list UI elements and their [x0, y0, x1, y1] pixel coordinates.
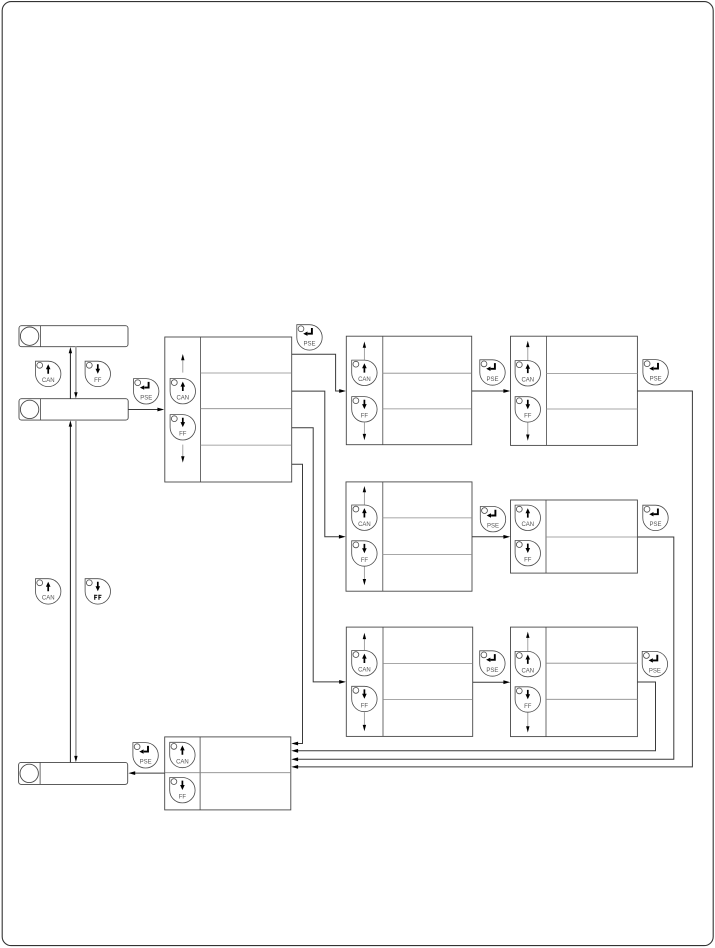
block B4 (row2 center)	[346, 482, 472, 591]
process capsule P1 (top-left)	[19, 326, 128, 347]
wire W4 line	[292, 428, 341, 682]
wire W1 line	[128, 409, 158, 411]
block B2 (row1 center)	[346, 336, 471, 445]
port balloon CAN (mid-left)	[36, 579, 61, 604]
port balloon FF in B8	[170, 778, 195, 803]
block B8 (collector bottom)	[165, 737, 291, 810]
port balloon CAN in B2	[352, 360, 377, 385]
port balloon FF in B5	[515, 541, 540, 566]
port balloon FF in B4	[352, 541, 377, 566]
port balloon PSE on W6	[480, 360, 505, 385]
port balloon FF in B7	[515, 687, 540, 712]
in-flow arrow (down)	[363, 422, 366, 440]
wire W1: P2 -> B1	[128, 408, 164, 412]
block B6 (row3 center)	[346, 627, 472, 736]
in-flow arrow (down)	[363, 567, 366, 586]
wire W5 line	[292, 464, 303, 743]
port balloon PSE on W8	[480, 507, 505, 532]
port balloon FF (mid-left, bold)	[85, 579, 110, 604]
port balloon CAN in B3	[515, 361, 540, 386]
wire W11: B7 -> B8	[291, 682, 655, 753]
port balloon CAN in B7	[515, 651, 540, 676]
out-flow arrow (up)	[363, 342, 366, 360]
wire W12: B8 -> P3	[128, 771, 164, 775]
port balloon CAN (upper-left)	[36, 361, 61, 386]
block B3 (row1 right)	[511, 336, 638, 445]
in-flow arrow (down)	[363, 712, 366, 731]
process capsule P3 (bottom-left)	[19, 762, 128, 784]
port balloon CAN in B6	[352, 651, 377, 676]
wire: up channel P2->P1	[69, 347, 72, 399]
port balloon CAN in B5	[515, 505, 540, 530]
wire W8 line	[472, 536, 504, 538]
wire W7 line	[297, 391, 692, 767]
wire W12 line	[134, 772, 164, 774]
out-flow arrow (up)	[526, 341, 529, 361]
port balloon FF (upper-left)	[85, 361, 110, 386]
wire W10: B6 -> B7	[473, 680, 511, 684]
wire W7: B3 -> B8	[291, 391, 692, 769]
wire: down channel P1->P2 (grey)	[74, 347, 77, 399]
process capsule P2 (mid-left)	[19, 399, 128, 420]
block B5 (row2 right)	[511, 500, 638, 573]
wire: down channel P2->P3 (grey)	[74, 420, 77, 762]
wire W9 line	[297, 537, 674, 759]
port balloon CAN in B4	[352, 505, 377, 530]
wire W3: B1 -> B4	[292, 391, 346, 538]
divider across B8 left column	[165, 772, 200, 774]
port balloon PSE on W9	[643, 505, 668, 530]
in-flow arrow (down)	[181, 445, 184, 463]
wire W4: B1 -> B6	[292, 428, 346, 684]
wire W2 line	[292, 354, 341, 391]
port balloon FF in B3	[515, 397, 540, 422]
out-flow arrow (up)	[181, 354, 184, 373]
port balloon PSE on W12	[133, 743, 158, 768]
in-flow arrow (down)	[526, 713, 529, 733]
wire W10 line	[473, 681, 505, 683]
out-flow arrow (up)	[363, 633, 366, 650]
port balloon FF in B1	[170, 415, 195, 440]
port balloon PSE on W11	[642, 651, 667, 676]
port balloon FF in B2	[352, 397, 377, 422]
wire W9: B5 -> B8	[291, 537, 674, 761]
port balloon PSE on W10	[480, 651, 505, 676]
port balloon FF in B6	[352, 686, 377, 711]
port balloon PSE on W2	[297, 325, 322, 350]
in-flow arrow (down)	[526, 422, 529, 440]
out-flow arrow (up)	[363, 486, 366, 505]
block B7 (row3 right)	[511, 627, 638, 737]
wire W11 line	[297, 682, 655, 751]
wire W6 line	[472, 390, 505, 392]
wire: up channel P3->P2	[69, 420, 72, 762]
port balloon CAN in B8	[170, 742, 195, 767]
block B1 (dispatcher)	[165, 337, 292, 482]
port balloon CAN in B1	[170, 379, 195, 404]
wire W3 line	[292, 391, 340, 537]
port balloon PSE on W7	[643, 360, 668, 385]
wire W6: B2 -> B3	[472, 389, 511, 393]
wire W2: B1 -> B2	[292, 354, 346, 393]
wire W8: B4 -> B5	[472, 535, 510, 539]
wire W5: B1 -> B8	[291, 464, 302, 745]
port balloon PSE on W1	[134, 379, 159, 404]
out-flow arrow (up)	[526, 632, 529, 652]
